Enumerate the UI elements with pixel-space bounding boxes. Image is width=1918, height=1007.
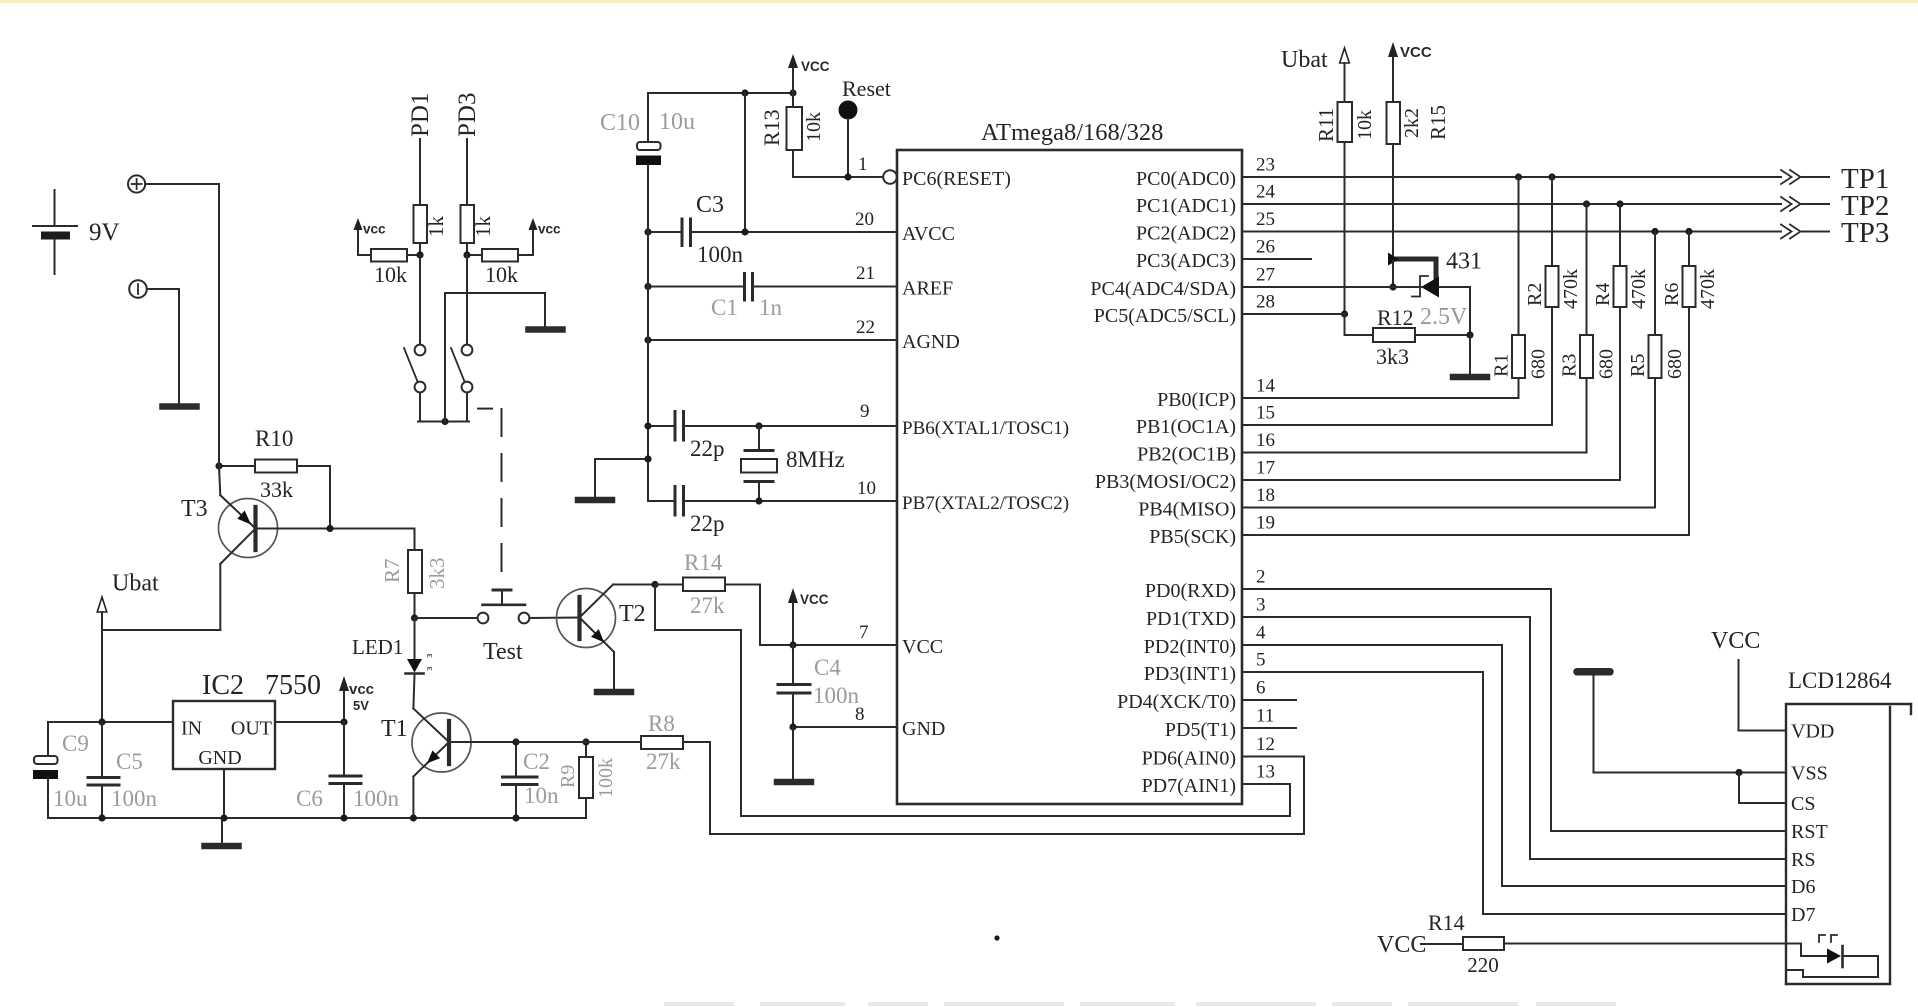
svg-text:3: 3 (1256, 595, 1266, 616)
resistor R12 3k3 (1373, 305, 1470, 369)
capacitor C6 100n (296, 722, 400, 818)
testpoint TP3 (1781, 217, 1889, 249)
svg-text:GND: GND (902, 718, 945, 740)
svg-text:6: 6 (1256, 678, 1266, 699)
vcc arrow (right pullup) (529, 218, 562, 255)
svg-text:PC6(RESET): PC6(RESET) (902, 168, 1011, 190)
svg-text:PC5(ADC5/SCL): PC5(ADC5/SCL) (1094, 305, 1236, 327)
svg-text:PB3(MOSI/OC2): PB3(MOSI/OC2) (1095, 471, 1236, 493)
ic U1 right pin labels (1090, 168, 1236, 797)
node R9 top junction (582, 738, 589, 745)
svg-text:R11: R11 (1314, 108, 1338, 142)
wire minus terminal to ground (147, 289, 179, 404)
svg-text:PB7(XTAL2/TOSC2): PB7(XTAL2/TOSC2) (902, 493, 1069, 514)
svg-text:C3: C3 (696, 192, 724, 218)
wire PB5 line (1242, 534, 1689, 536)
svg-text:R15: R15 (1426, 105, 1450, 140)
testpoint TP1 (1781, 163, 1889, 195)
value 2.5V (1420, 304, 1468, 330)
wire PB3 line (1242, 479, 1620, 481)
svg-text:24: 24 (1256, 182, 1276, 203)
node PC5 junction (1341, 310, 1348, 317)
svg-text:PD2(INT0): PD2(INT0) (1144, 636, 1236, 658)
svg-text:11: 11 (1256, 706, 1274, 727)
svg-text:19: 19 (1256, 513, 1275, 534)
svg-text:AGND: AGND (902, 331, 960, 353)
resistor R15 2k2 (1387, 102, 1451, 259)
wire PC0 to TP1 (1242, 176, 1781, 178)
pin number 22 (856, 317, 875, 338)
svg-text:10k: 10k (803, 112, 825, 142)
ground (switch common) (529, 326, 563, 333)
node bus C6 (340, 814, 347, 821)
svg-text:13: 13 (1256, 762, 1275, 783)
svg-text:з: з (423, 667, 435, 671)
svg-text:Test: Test (483, 639, 523, 665)
svg-text:220: 220 (1467, 953, 1499, 977)
ic U1 right pin numbers (1256, 155, 1276, 783)
svg-text:10u: 10u (659, 109, 695, 135)
wire T2 collector to PD7 loop (655, 585, 1290, 817)
svg-text:R5: R5 (1627, 354, 1649, 377)
wire T3 collector to Ubat corner to IN (102, 564, 220, 722)
svg-text:5V: 5V (353, 698, 369, 713)
terminal + (battery plus connector) (128, 175, 145, 192)
svg-text:100n: 100n (813, 683, 860, 708)
capacitor 22p (top) (675, 412, 725, 462)
svg-text:9: 9 (860, 401, 870, 422)
node TP1-R1 (1515, 173, 1522, 180)
svg-text:27k: 27k (646, 749, 681, 774)
svg-text:R2: R2 (1524, 283, 1546, 306)
svg-text:PB4(MISO): PB4(MISO) (1138, 499, 1236, 521)
ground (T2 emitter) (597, 689, 631, 696)
wire VCC pin7 line (760, 644, 897, 646)
wire junction to switch PD1 (419, 255, 421, 345)
svg-text:VSS: VSS (1791, 763, 1828, 785)
node junction PD1/1k/10k (416, 251, 423, 258)
wire left vertical bus (C10 column) (647, 165, 649, 501)
resistor 10k (left pullup) (358, 249, 420, 287)
wire PD4 stub (1242, 699, 1296, 701)
ground (C4/pin8) (777, 779, 811, 786)
svg-text:AVCC: AVCC (902, 223, 955, 245)
svg-text:PD7(AIN1): PD7(AIN1) (1142, 775, 1236, 797)
svg-text:1: 1 (858, 154, 868, 175)
resistor R2 470k (1524, 177, 1582, 425)
svg-text:VCC: VCC (800, 592, 829, 607)
svg-text:PC2(ADC2): PC2(ADC2) (1136, 223, 1236, 245)
resistor R11 10k (1314, 102, 1376, 314)
stray dot (994, 935, 999, 940)
node T3 base junction (326, 525, 333, 532)
node switch common junction (441, 418, 448, 425)
svg-text:PC0(ADC0): PC0(ADC0) (1136, 168, 1236, 190)
wire OUT line (275, 721, 344, 723)
wire PD3 to LCD D7 (1242, 672, 1786, 914)
svg-text:R6: R6 (1661, 283, 1683, 306)
svg-text:PD1(TXD): PD1(TXD) (1146, 608, 1236, 630)
wire top rail (648, 92, 793, 94)
svg-text:25: 25 (1256, 209, 1275, 230)
svg-text:IN: IN (181, 718, 202, 740)
wire AREF pin line with C1 (648, 286, 897, 288)
wire plus terminal to R10 column (145, 184, 219, 466)
svg-text:VCC: VCC (801, 59, 830, 74)
wire R8 to PD6 loop (710, 742, 1304, 834)
svg-text:R1: R1 (1491, 354, 1513, 377)
svg-text:5: 5 (1256, 650, 1266, 671)
svg-text:PB1(OC1A): PB1(OC1A) (1136, 416, 1236, 438)
node pin8 junction (789, 723, 796, 730)
svg-text:18: 18 (1256, 485, 1275, 506)
node PD3 label (454, 93, 481, 137)
pin circle PC6 (pin 1) (883, 170, 897, 184)
resistor R13 10k (759, 93, 825, 177)
svg-text:100k: 100k (595, 758, 617, 798)
svg-text:R8: R8 (648, 711, 675, 736)
node TP2-R4 (1616, 200, 1623, 207)
svg-text:T1: T1 (381, 716, 408, 742)
wire junction to switch PD3 (466, 255, 468, 345)
transistor T1 (NPN) (381, 709, 516, 819)
node PB6 left junction (644, 422, 651, 429)
svg-text:VCC: VCC (1377, 932, 1426, 958)
svg-text:R13: R13 (759, 109, 784, 146)
svg-text:IC2 7550: IC2 7550 (202, 670, 321, 701)
svg-text:VCC: VCC (902, 636, 943, 658)
ground (IC2) (205, 843, 239, 850)
ic U1 ATmega8/168/328 body (897, 150, 1242, 804)
wire PC2 to TP3 (1242, 231, 1781, 233)
svg-text:16: 16 (1256, 430, 1275, 451)
resistor R8 27k (516, 711, 710, 774)
svg-text:LCD12864: LCD12864 (1788, 668, 1892, 693)
svg-text:10n: 10n (524, 783, 559, 808)
svg-text:C9: C9 (62, 731, 89, 756)
svg-text:470k: 470k (1628, 269, 1650, 309)
node xtal ground junction (644, 455, 651, 462)
resistor 10k (right pullup) (467, 249, 533, 287)
transistor T3 (PNP) (181, 184, 330, 564)
svg-text:20: 20 (855, 209, 874, 230)
resistor R7 3k3 (380, 529, 449, 619)
svg-text:680: 680 (1528, 349, 1550, 379)
svg-text:33k: 33k (260, 477, 293, 502)
svg-text:21: 21 (856, 263, 875, 284)
svg-text:431: 431 (1446, 249, 1482, 275)
wire dashed mechanical link (478, 409, 502, 583)
svg-text:R14: R14 (684, 550, 723, 575)
svg-text:D6: D6 (1791, 876, 1815, 898)
button Reset (839, 76, 891, 177)
wire switch PD3 bottom to common (466, 393, 468, 422)
wire PB7 pin line with C22p (648, 500, 897, 502)
wire VDD line (1739, 730, 1787, 732)
node T1 emitter bus junction (410, 814, 417, 821)
svg-text:10k: 10k (1354, 110, 1376, 140)
svg-text:C10: C10 (600, 110, 640, 136)
node C2 top junction (512, 738, 519, 745)
node R10 left junction (215, 462, 222, 469)
node junction PD3/1k/10k (463, 251, 470, 258)
wire AVCC pin line with C3 (648, 231, 897, 233)
node R12 right junction (1466, 331, 1473, 338)
svg-text:R4: R4 (1592, 283, 1614, 306)
vcc arrow (pin7) (788, 588, 829, 645)
node AGND junction (644, 336, 651, 343)
svg-text:PC1(ADC1): PC1(ADC1) (1136, 195, 1236, 217)
svg-text:VCC: VCC (1711, 628, 1760, 654)
resistor R6 470k (1661, 232, 1719, 536)
node 431 cathode junction (1389, 283, 1396, 290)
svg-text:PB5(SCK): PB5(SCK) (1149, 526, 1236, 548)
node TP2-R3 (1583, 200, 1590, 207)
capacitor C3 100n (682, 192, 744, 267)
svg-text:10k: 10k (374, 262, 407, 287)
svg-text:RS: RS (1791, 849, 1815, 871)
svg-text:Ubat: Ubat (112, 571, 159, 597)
svg-text:C1: C1 (711, 295, 738, 320)
wire common up to ground branch (445, 293, 545, 422)
switch S2 (PD3) (451, 345, 472, 393)
node AVCC left junction (644, 228, 651, 235)
svg-text:4: 4 (1256, 623, 1266, 644)
capacitor C4 100n (778, 645, 860, 727)
capacitor C1 1n (711, 274, 783, 321)
svg-text:100n: 100n (111, 786, 158, 811)
wire switch PD1 bottom to common (419, 393, 421, 422)
wire PB0 line (1242, 397, 1519, 399)
svg-text:680: 680 (1664, 349, 1686, 379)
svg-text:100n: 100n (697, 242, 744, 267)
svg-text:C4: C4 (814, 655, 841, 680)
wire AGND pin line (648, 339, 897, 341)
node Reset junction (844, 173, 851, 180)
svg-text:PC4(ADC4/SDA): PC4(ADC4/SDA) (1090, 278, 1236, 300)
svg-text:R3: R3 (1559, 354, 1581, 377)
svg-text:14: 14 (1256, 376, 1276, 397)
svg-text:R10: R10 (255, 426, 293, 451)
svg-text:3k3: 3k3 (425, 558, 449, 590)
svg-text:GND: GND (198, 747, 241, 769)
resistor R3 680 (1559, 204, 1618, 453)
svg-text:470k: 470k (1560, 269, 1582, 309)
svg-text:R9: R9 (557, 765, 579, 788)
pin number 8 (855, 704, 865, 725)
wire 1k to junction (466, 243, 468, 255)
ic IC2 labels (181, 718, 272, 770)
svg-text:1n: 1n (759, 295, 783, 320)
svg-text:R7: R7 (380, 558, 404, 583)
resistor R1 680 (1491, 177, 1550, 398)
transistor T2 (NPN) (557, 585, 656, 690)
wire switch common bus (418, 421, 469, 423)
svg-text:OUT: OUT (231, 718, 272, 740)
vcc arrow (R15) (1388, 42, 1432, 102)
node rail-AVCC tap (741, 89, 748, 96)
svg-text:R12: R12 (1377, 305, 1414, 330)
node rail-R13 tap (789, 89, 796, 96)
svg-text:22p: 22p (690, 436, 725, 461)
wire PD1 to LCD RS (1242, 617, 1786, 859)
ground (xtal) (578, 497, 612, 504)
svg-text:PD5(T1): PD5(T1) (1165, 719, 1236, 741)
node T2 collector junction (651, 581, 658, 588)
svg-text:PD6(AIN0): PD6(AIN0) (1142, 748, 1236, 770)
svg-text:12: 12 (1256, 734, 1275, 755)
wire PC5 to R12 (1242, 314, 1373, 335)
svg-text:Reset: Reset (842, 76, 891, 101)
svg-text:8MHz: 8MHz (786, 447, 845, 472)
svg-text:27k: 27k (690, 593, 725, 618)
svg-text:TP3: TP3 (1841, 217, 1889, 249)
wire PB1 line (1242, 424, 1552, 426)
wire IC2 GND stem (222, 769, 224, 843)
svg-text:15: 15 (1256, 403, 1275, 424)
resistor R14 27k (T2) (655, 550, 760, 645)
svg-text:vcc: vcc (538, 222, 561, 237)
node TP3-R6 (1685, 228, 1692, 235)
crystal 8MHz (741, 426, 845, 501)
svg-text:2: 2 (1256, 567, 1266, 588)
svg-text:1k: 1k (471, 216, 495, 238)
wire PB2 line (1242, 452, 1587, 454)
svg-text:PB0(ICP): PB0(ICP) (1157, 389, 1236, 411)
capacitor C10 10u (600, 93, 695, 232)
wire VSS line (1594, 676, 1787, 773)
pin number 10 (857, 478, 876, 499)
svg-text:VDD: VDD (1791, 721, 1834, 743)
svg-text:з: з (423, 654, 435, 658)
wire IN line (48, 721, 173, 723)
pin number 1 (858, 154, 868, 175)
svg-text:10: 10 (857, 478, 876, 499)
wire PC1 to TP2 (1242, 203, 1781, 205)
node C2 bus junction (512, 814, 519, 821)
resistor R14 220 (backlight) (1377, 910, 1786, 977)
wire R12 to ground (1469, 335, 1471, 374)
svg-text:AREF: AREF (902, 278, 953, 300)
wire PC3 stub (1242, 258, 1311, 260)
svg-text:PD1: PD1 (407, 93, 434, 137)
ground (battery minus) (163, 403, 197, 410)
svg-text:C2: C2 (523, 749, 550, 774)
svg-text:22p: 22p (690, 511, 725, 536)
capacitor 22p (bottom) (675, 487, 725, 537)
svg-text:470k: 470k (1697, 269, 1719, 309)
battery BT1 9V (33, 190, 120, 274)
terminal - (battery minus connector) (129, 280, 147, 298)
node TP3-R5 (1651, 228, 1658, 235)
wire pin8 to ground (792, 727, 794, 779)
testpoint TP2 (1781, 190, 1889, 222)
resistor 1k (PD1 pull) (414, 205, 449, 243)
node PB7 crystal junction (755, 497, 762, 504)
capacitor C2 10n (503, 742, 560, 818)
wire R13 to PC6 pin (793, 176, 883, 178)
wire PD0 to LCD RST (1242, 589, 1786, 831)
wire 1k to junction (419, 243, 421, 255)
pin number 7 (859, 622, 869, 643)
ic IC2 7550 body (173, 701, 275, 769)
lcd LCD12864 body (1786, 704, 1911, 984)
faint caption remnant (664, 1002, 1616, 1006)
ic U1 left pin labels (902, 168, 1069, 740)
resistor R10 33k (219, 426, 330, 529)
wire T3 base to R7 (330, 528, 415, 530)
vcc arrow (left pullup) (354, 218, 387, 255)
vcc arrow (R13 rail) (788, 54, 830, 93)
node AVCC right junction (741, 228, 748, 235)
node TP1-R2 (1548, 173, 1555, 180)
svg-text:9V: 9V (89, 219, 120, 246)
svg-text:27: 27 (1256, 265, 1275, 286)
ground (431/R12) (1453, 374, 1487, 381)
svg-text:3k3: 3k3 (1376, 344, 1409, 369)
node PB6 crystal junction (755, 422, 762, 429)
node OUT junction (340, 718, 347, 725)
wire PD5 stub (1242, 727, 1296, 729)
svg-text:PC3(ADC3): PC3(ADC3) (1136, 250, 1236, 272)
svg-text:PB2(OC1B): PB2(OC1B) (1137, 444, 1236, 466)
svg-text:CS: CS (1791, 793, 1815, 815)
ground bar (LCD VSS) (1577, 668, 1610, 676)
capacitor C9 10u (33, 722, 89, 818)
resistor R4 470k (1592, 204, 1650, 480)
resistor 1k (PD3 pull) (461, 205, 496, 243)
svg-text:10u: 10u (53, 786, 88, 811)
svg-text:T2: T2 (619, 601, 646, 627)
wire ground bus (48, 817, 586, 819)
svg-text:R14: R14 (1428, 910, 1465, 935)
wire PD1 to R 1k (419, 139, 421, 205)
switch S1 (PD1) (404, 345, 425, 393)
svg-text:D7: D7 (1791, 904, 1815, 926)
node pin7 junction (789, 641, 796, 648)
svg-text:PD4(XCK/T0): PD4(XCK/T0) (1117, 691, 1236, 713)
svg-text:680: 680 (1596, 349, 1618, 379)
svg-text:C5: C5 (116, 749, 143, 774)
svg-text:2k2: 2k2 (1401, 108, 1423, 138)
node R7/LED1/Test junction (411, 614, 418, 621)
ic U1 title (981, 119, 1163, 146)
svg-text:PD0(RXD): PD0(RXD) (1145, 580, 1236, 602)
net label VCC (LCD) (1711, 628, 1760, 731)
wire PB4 line (1242, 507, 1655, 509)
svg-text:PD3(INT1): PD3(INT1) (1144, 663, 1236, 685)
net label Ubat (left) (97, 571, 159, 631)
svg-text:22: 22 (856, 317, 875, 338)
svg-text:26: 26 (1256, 237, 1275, 258)
wire PC4 line to 431 and R12 (1242, 287, 1470, 335)
svg-text:T3: T3 (181, 496, 208, 522)
svg-text:10k: 10k (485, 262, 518, 287)
led LED1 (352, 618, 435, 709)
svg-text:PB6(XTAL1/TOSC1): PB6(XTAL1/TOSC1) (902, 418, 1069, 439)
resistor R5 680 (1627, 232, 1686, 508)
svg-text:100n: 100n (353, 786, 400, 811)
led backlight (inside LCD) (1786, 935, 1878, 977)
pin number 9 (860, 401, 870, 422)
node AREF junction (644, 283, 651, 290)
regulator 431 (TL431) (1388, 249, 1482, 298)
node IN junction (Ubat/C5) (98, 718, 105, 725)
wire PD3 to R 1k (466, 139, 468, 205)
svg-text:23: 23 (1256, 155, 1275, 176)
svg-text:1k: 1k (424, 216, 448, 238)
button Test (415, 590, 580, 665)
